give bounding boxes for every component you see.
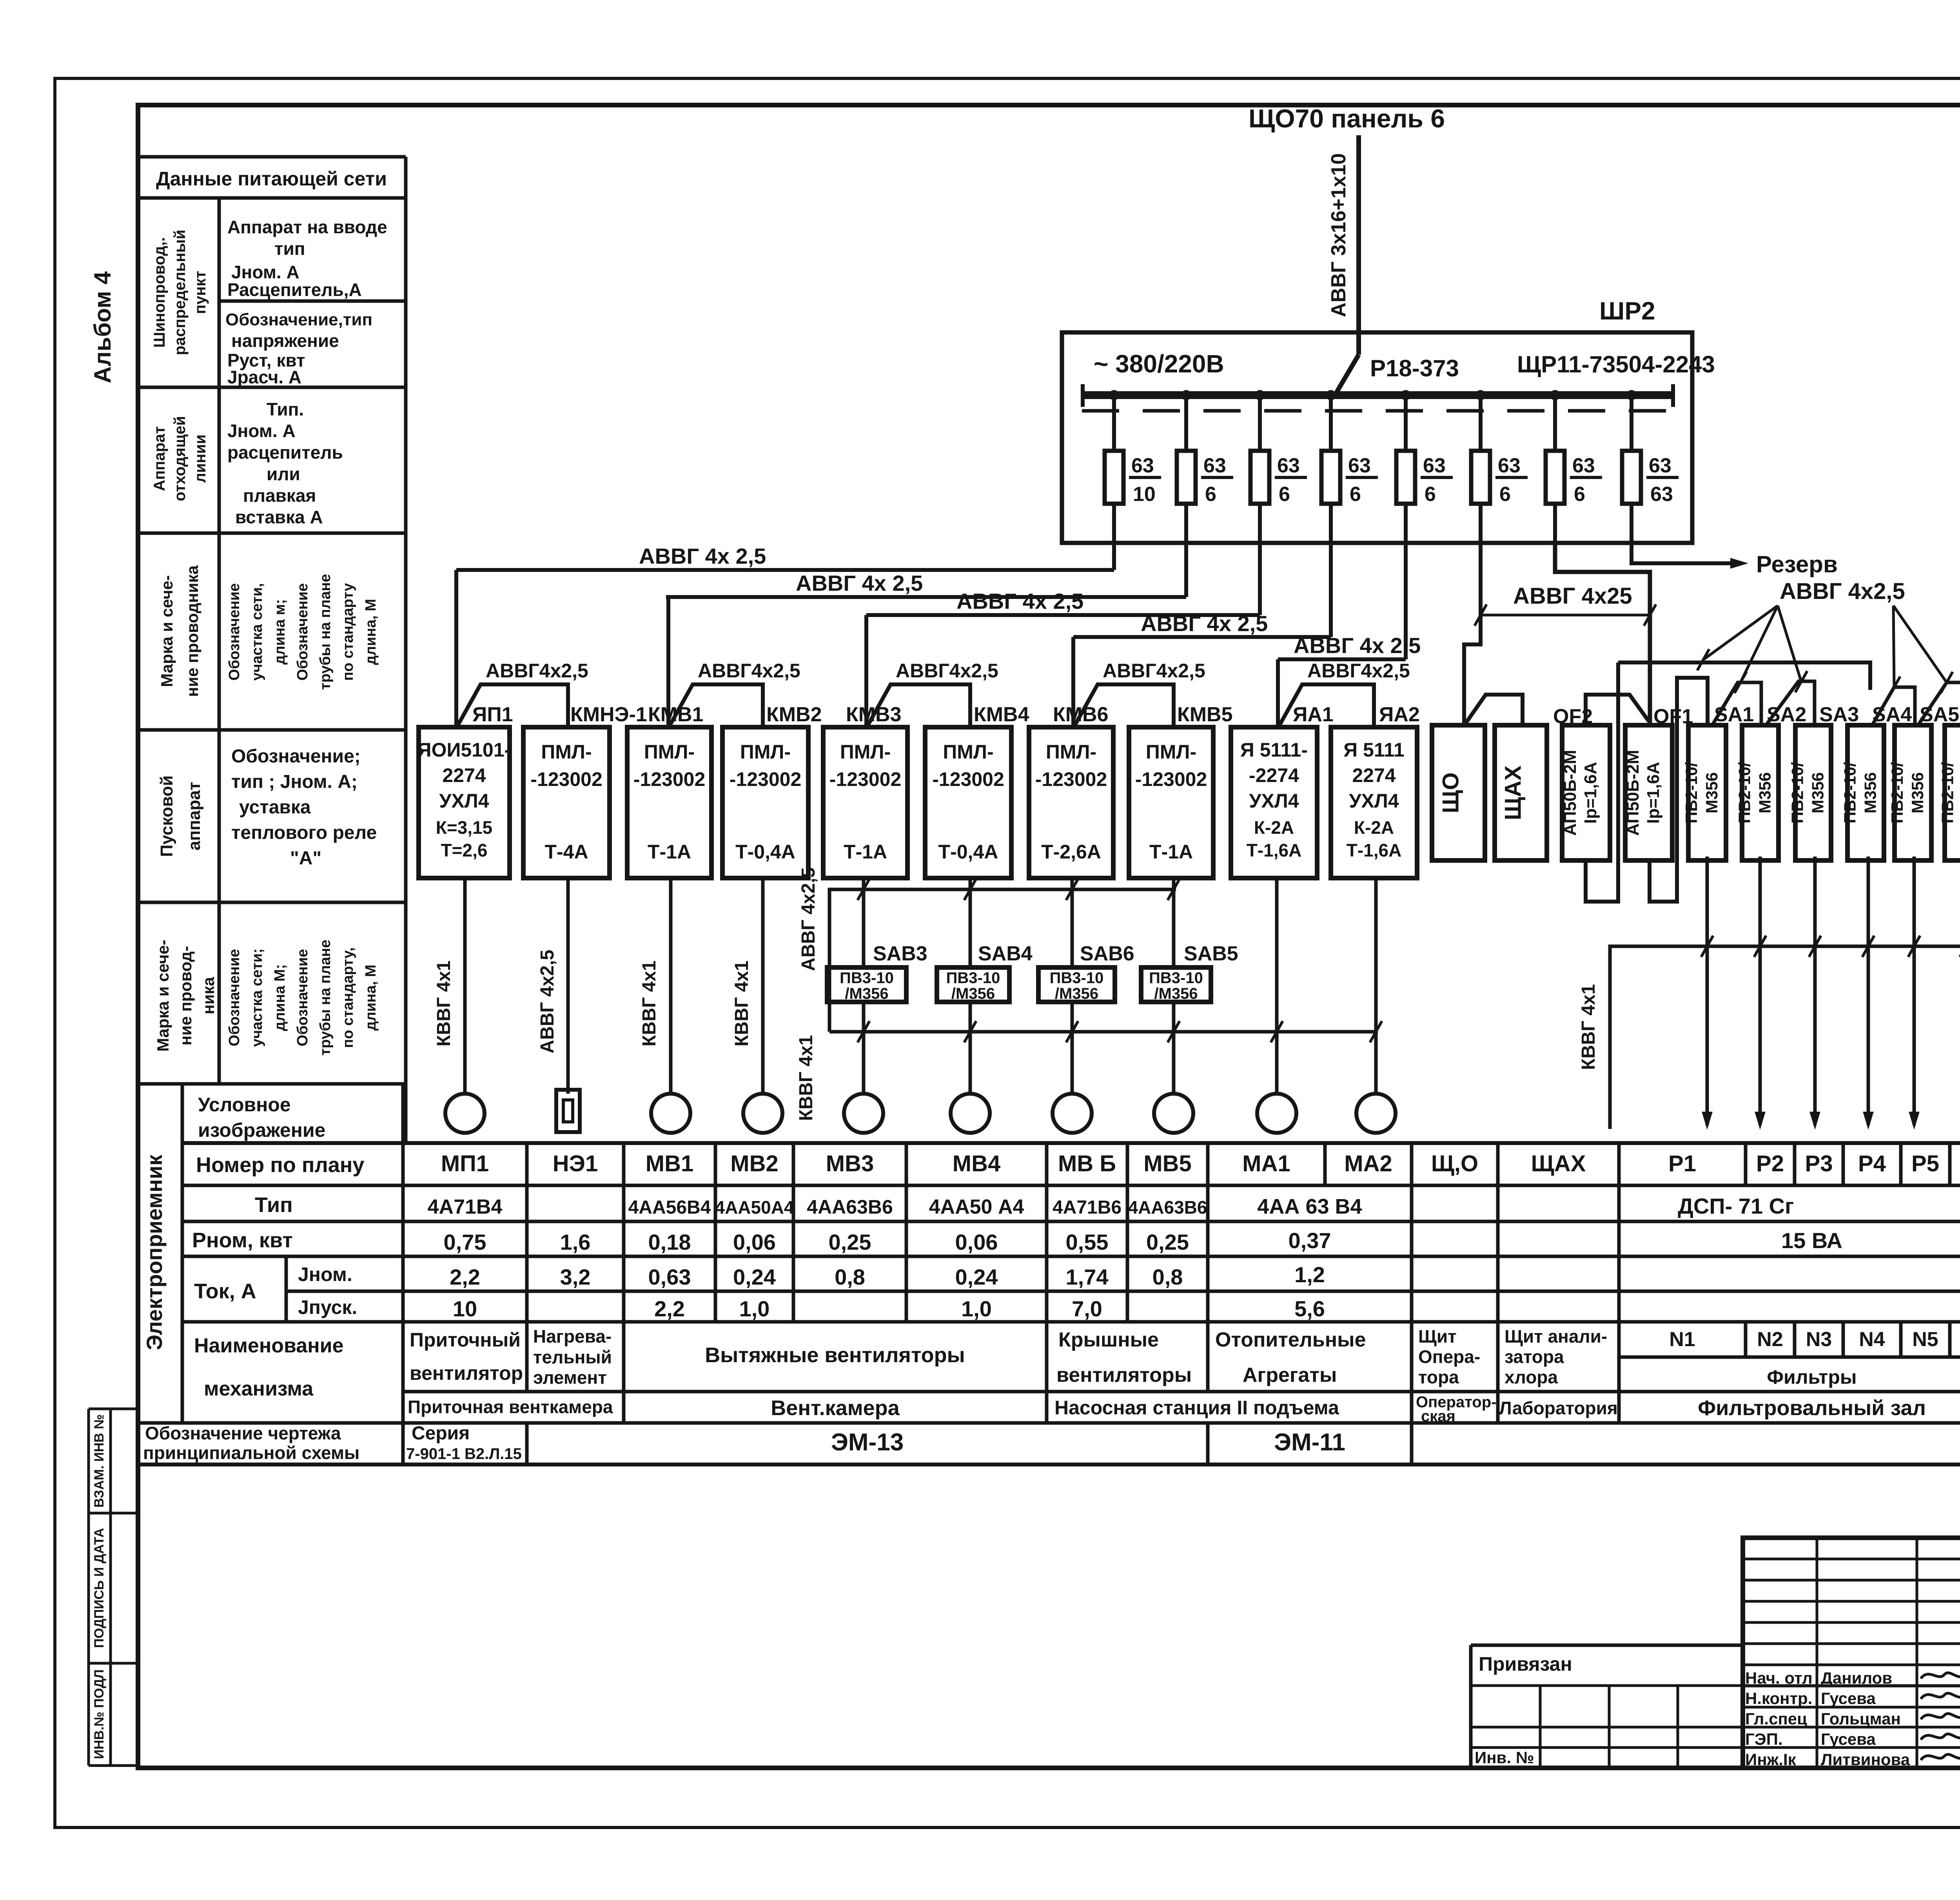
starter КМВ4 (ПМЛ-123002 Т-0,4А) (925, 727, 1011, 878)
svg-text:-123002: -123002 (633, 768, 706, 790)
svg-text:трубы на плане: трубы на плане (317, 574, 334, 690)
svg-text:6: 6 (1425, 483, 1436, 506)
svg-text:М356: М356 (1861, 772, 1880, 813)
svg-text:N2: N2 (1757, 1328, 1783, 1351)
wire group 5 roof (1279, 684, 1374, 728)
svg-text:0,24: 0,24 (733, 1265, 776, 1289)
svg-text:2274: 2274 (1352, 764, 1396, 786)
panel ЩАХ (1495, 725, 1547, 860)
svg-text:М356: М356 (1756, 772, 1774, 813)
wire drop to load 8 (1172, 878, 1176, 967)
switch SAB4 (ПВ3-10/М356) (937, 967, 1009, 1002)
svg-text:5,6: 5,6 (1294, 1296, 1325, 1321)
svg-text:0,63: 0,63 (648, 1265, 691, 1289)
svg-text:Пусковой: Пусковой (157, 775, 176, 857)
top margin band line (138, 103, 1960, 107)
switch SAB3 (ПВ3-10/М356) (827, 967, 906, 1002)
svg-text:Iр=1,6А: Iр=1,6А (1581, 762, 1600, 824)
svg-text:участка сети;: участка сети; (249, 948, 265, 1047)
svg-text:Ток, А: Ток, А (194, 1279, 256, 1303)
starter ЯА2 (Я5111-2274) (1331, 727, 1417, 878)
svg-text:/М356: /М356 (1055, 985, 1098, 1002)
svg-text:Јном. А: Јном. А (227, 421, 296, 441)
neutral dashed bus (1082, 409, 1674, 413)
svg-text:-123002: -123002 (1135, 768, 1207, 790)
svg-text:М356: М356 (1809, 772, 1827, 813)
svg-text:2,2: 2,2 (654, 1296, 685, 1321)
svg-text:Гусева: Гусева (1821, 1689, 1876, 1708)
svg-text:КМВ1: КМВ1 (648, 703, 704, 726)
svg-text:Я 5111: Я 5111 (1343, 739, 1405, 761)
wire feeder 4 run (1329, 543, 1333, 637)
svg-text:пункт: пункт (192, 271, 209, 314)
wire to filter Р5 (1913, 857, 1916, 1125)
wire SA2-SA3 roof (1766, 681, 1815, 725)
svg-text:АВВГ4х2,5: АВВГ4х2,5 (1103, 660, 1205, 682)
wire drop to load 4 (761, 878, 765, 1094)
svg-text:К=3,15: К=3,15 (436, 817, 492, 838)
svg-text:тельный: тельный (533, 1347, 612, 1367)
svg-text:по стандарту,: по стандарту, (340, 947, 356, 1048)
svg-text:КВВГ 4х1: КВВГ 4х1 (639, 960, 660, 1046)
svg-text:Марка и сече-: Марка и сече- (158, 575, 176, 687)
svg-text:Фильтры: Фильтры (1767, 1366, 1857, 1388)
heater element НЭ1 symbol (556, 1090, 580, 1132)
svg-text:0,8: 0,8 (835, 1265, 865, 1289)
svg-text:"А": "А" (290, 848, 321, 869)
svg-text:АВВГ4х2,5: АВВГ4х2,5 (698, 660, 800, 682)
motor symbol M9 (1257, 1094, 1296, 1133)
svg-text:4АА50А4: 4АА50А4 (715, 1197, 794, 1218)
wire branch bus КВВГ 4х1 (829, 1030, 1378, 1034)
starter КМВ2 (ПМЛ-123002 Т-0,4А) (722, 727, 808, 878)
wire drop to load 9 (1275, 878, 1279, 1094)
svg-text:ЩАХ: ЩАХ (1501, 765, 1526, 820)
svg-text:ЩО70 панель 6: ЩО70 панель 6 (1249, 104, 1445, 133)
wire drop to load 7 (1071, 878, 1074, 967)
svg-text:63: 63 (1572, 454, 1595, 477)
svg-text:SAB6: SAB6 (1080, 942, 1134, 965)
svg-text:Насосная станция II подъема: Насосная станция II подъема (1054, 1397, 1339, 1419)
svg-text:Обозначение чертежа: Обозначение чертежа (145, 1423, 341, 1443)
svg-text:длина М;: длина М; (272, 964, 288, 1031)
svg-text:ПМЛ-: ПМЛ- (943, 741, 993, 763)
svg-text:Приточная венткамера: Приточная венткамера (408, 1397, 613, 1417)
svg-text:-123002: -123002 (530, 768, 603, 790)
svg-text:К-2А: К-2А (1254, 817, 1294, 838)
wire group 1 drop (454, 570, 458, 728)
svg-text:Аппарат: Аппарат (151, 426, 168, 491)
svg-text:МА2: МА2 (1344, 1151, 1392, 1176)
label Привязан block (1469, 1645, 1473, 1768)
bus junction node 5 (1401, 390, 1411, 400)
svg-text:ПОДПИСЬ И ДАТА: ПОДПИСЬ И ДАТА (92, 1528, 107, 1648)
svg-text:63: 63 (1649, 454, 1671, 477)
svg-text:АВВГ 4х 2,5: АВВГ 4х 2,5 (639, 544, 766, 568)
svg-text:МВ5: МВ5 (1143, 1151, 1191, 1176)
svg-text:63: 63 (1348, 454, 1371, 477)
svg-text:АВВГ 4х2,5: АВВГ 4х2,5 (798, 867, 819, 971)
switch SA4 (ПВ2-10/М356) (1847, 725, 1884, 860)
fuse F8 63/63 (1630, 395, 1633, 543)
svg-text:-123002: -123002 (730, 768, 802, 790)
svg-text:Нач. отл: Нач. отл (1745, 1669, 1813, 1687)
svg-text:Р2: Р2 (1756, 1151, 1784, 1176)
svg-text:КМВ4: КМВ4 (974, 703, 1029, 726)
svg-text:6: 6 (1574, 483, 1585, 506)
svg-text:Я 5111-: Я 5111- (1240, 739, 1308, 761)
svg-text:Крышные: Крышные (1058, 1328, 1159, 1351)
svg-text:АВВГ 4х 2,5: АВВГ 4х 2,5 (1294, 633, 1421, 658)
svg-text:Щ,О: Щ,О (1431, 1151, 1478, 1176)
svg-text:0,18: 0,18 (648, 1230, 691, 1254)
svg-text:4АА 63 В4: 4АА 63 В4 (1257, 1195, 1362, 1218)
svg-text:АВВГ 3х16+1х10: АВВГ 3х16+1х10 (1327, 153, 1350, 317)
svg-text:Фильтровальный зал: Фильтровальный зал (1698, 1396, 1926, 1420)
svg-text:Гольцман: Гольцман (1821, 1709, 1901, 1728)
motor symbol M3 (651, 1094, 690, 1133)
bus bar of ShchR2 (1082, 391, 1674, 399)
wire QF2 output loop (1586, 662, 1618, 902)
motor symbol M6 (951, 1094, 990, 1133)
svg-text:по стандарту: по стандарту (340, 583, 356, 681)
wire drop to load 5 (862, 878, 866, 967)
svg-text:SAB5: SAB5 (1184, 942, 1238, 965)
wire group 5 drop (1276, 659, 1280, 728)
svg-text:Т-1,6А: Т-1,6А (1247, 840, 1302, 860)
dimension line АВВГ 4х25 (1481, 614, 1650, 617)
svg-text:КМВ2: КМВ2 (766, 703, 822, 726)
wire group 4 roof (1075, 684, 1174, 728)
svg-text:ПВ2-10/: ПВ2-10/ (1841, 762, 1859, 824)
svg-text:МВ3: МВ3 (826, 1151, 874, 1176)
svg-text:Условное: Условное (198, 1094, 291, 1116)
svg-text:Т-4А: Т-4А (544, 841, 588, 863)
wire drop to load 3 (669, 878, 673, 1094)
svg-text:Обозначение: Обозначение (294, 949, 311, 1046)
svg-text:ГЭП.: ГЭП. (1745, 1730, 1783, 1748)
svg-text:АВВГ 4х2,5: АВВГ 4х2,5 (1780, 579, 1905, 604)
svg-text:4АА63В6: 4АА63В6 (1128, 1197, 1207, 1218)
svg-text:4АА63В6: 4АА63В6 (807, 1196, 893, 1218)
svg-text:КВВГ 4х1: КВВГ 4х1 (796, 1035, 817, 1121)
svg-text:или: или (267, 464, 300, 484)
svg-text:принципиальной схемы: принципиальной схемы (143, 1443, 359, 1463)
svg-text:ПВ3-10: ПВ3-10 (946, 969, 1000, 987)
svg-text:хлора: хлора (1504, 1367, 1558, 1387)
svg-text:КВВГ 4х1: КВВГ 4х1 (731, 960, 752, 1046)
table horizontal rules (182, 1141, 1960, 1145)
wire QF2 roof (1586, 695, 1649, 726)
svg-text:вставка А: вставка А (235, 507, 323, 527)
motor symbol M7 (1053, 1094, 1092, 1133)
svg-text:1,74: 1,74 (1066, 1265, 1109, 1289)
svg-text:АВВГ 4х 2,5: АВВГ 4х 2,5 (956, 589, 1083, 613)
feeder-data table grid (138, 155, 406, 159)
svg-text:Т-1,6А: Т-1,6А (1347, 840, 1402, 860)
motor symbol M4 (743, 1094, 782, 1133)
wire SA4 roof (1872, 687, 1915, 725)
svg-text:Р4: Р4 (1858, 1151, 1886, 1176)
svg-text:ЩР11-73504-2243: ЩР11-73504-2243 (1517, 351, 1715, 377)
svg-text:К-2А: К-2А (1354, 817, 1394, 838)
bus junction node 6 (1475, 390, 1486, 400)
svg-text:Рном, квт: Рном, квт (192, 1229, 293, 1252)
svg-text:МП1: МП1 (441, 1151, 489, 1176)
svg-text:15 ВА: 15 ВА (1781, 1228, 1842, 1253)
svg-text:Аппарат на вводе: Аппарат на вводе (227, 217, 387, 237)
title block frame (1743, 1538, 1960, 1768)
svg-text:теплового реле: теплового реле (231, 822, 377, 843)
starter ЯП1 (ЯОИ5101-2274) (419, 727, 510, 878)
svg-text:ЭМ-13: ЭМ-13 (831, 1429, 904, 1456)
svg-text:Нагрева-: Нагрева- (533, 1326, 612, 1347)
starter КМВ5 (ПМЛ-123002 Т-1А) (1129, 727, 1213, 878)
svg-text:Обозначение: Обозначение (294, 583, 311, 681)
svg-text:Јпуск.: Јпуск. (298, 1296, 357, 1318)
wire feeder 7 to QF1/QF2 (1555, 543, 1650, 724)
breaker QF1 (АП50Б-2М) (1625, 725, 1672, 860)
wire feeder 3 run (1258, 543, 1262, 615)
svg-text:КВВГ 4х1: КВВГ 4х1 (434, 960, 454, 1046)
svg-text:ПМЛ-: ПМЛ- (840, 741, 891, 763)
wire to filter Р4 (1867, 857, 1870, 1125)
svg-text:отходящей: отходящей (171, 416, 189, 501)
motor symbol M1 (445, 1094, 485, 1133)
wire group 2 drop (666, 597, 670, 728)
wire feeder 2 run (1184, 543, 1188, 597)
svg-text:длина, М: длина, М (363, 599, 379, 665)
svg-text:АВВГ 4х2,5: АВВГ 4х2,5 (537, 950, 558, 1054)
wire to filter Р1 (1706, 857, 1709, 1125)
svg-text:уставка: уставка (239, 797, 311, 818)
svg-text:/М356: /М356 (845, 985, 888, 1002)
wire incoming from ЩО70 (1356, 135, 1361, 355)
svg-text:0,06: 0,06 (955, 1230, 998, 1254)
svg-text:Агрегаты: Агрегаты (1243, 1364, 1337, 1386)
fuse F5 63/6 (1404, 395, 1408, 543)
distribution panel ShchR2 enclosure (1062, 332, 1692, 543)
wire drop to load 6 (969, 878, 972, 967)
svg-text:4АА50 А4: 4АА50 А4 (929, 1196, 1024, 1218)
svg-text:Јном.: Јном. (298, 1263, 352, 1285)
svg-text:1,0: 1,0 (961, 1296, 992, 1321)
svg-text:/М356: /М356 (1154, 985, 1198, 1002)
signature squiggles (1921, 1673, 1960, 1679)
svg-text:длина, М: длина, М (363, 965, 379, 1031)
svg-text:ние проводника: ние проводника (183, 565, 201, 697)
starter КМВ1 (ПМЛ-123002 Т-1А) (627, 727, 711, 878)
svg-text:аппарат: аппарат (185, 782, 204, 851)
svg-text:6: 6 (1499, 483, 1511, 506)
svg-text:М356: М356 (1702, 772, 1721, 813)
svg-text:Электроприемник: Электроприемник (142, 1154, 167, 1350)
svg-text:ПВ3-10: ПВ3-10 (1149, 969, 1203, 987)
svg-text:изображение: изображение (198, 1119, 325, 1141)
svg-text:0,06: 0,06 (733, 1230, 776, 1254)
wire КВВГ 4х1 to filters (1610, 946, 1960, 1129)
table left label verticals (181, 1084, 184, 1423)
fuse F3 63/6 (1258, 395, 1262, 543)
svg-text:МВ2: МВ2 (730, 1151, 778, 1176)
svg-text:ЯОИ5101-: ЯОИ5101- (417, 739, 511, 761)
bus junction node 2 (1181, 390, 1191, 400)
svg-text:АП50Б-2М: АП50Б-2М (1623, 750, 1642, 836)
svg-text:Марка и сече-: Марка и сече- (154, 940, 172, 1051)
svg-text:ника: ника (199, 977, 218, 1014)
row Наименование механизма cells (401, 1322, 405, 1392)
svg-text:0,25: 0,25 (1146, 1230, 1189, 1254)
svg-text:Р18-373: Р18-373 (1370, 355, 1459, 381)
starter ЯА1 (Я5111-2274) (1231, 727, 1317, 878)
svg-text:НЭ1: НЭ1 (553, 1151, 598, 1176)
svg-text:ЭМ-11: ЭМ-11 (1274, 1429, 1345, 1456)
svg-text:Опера-: Опера- (1418, 1347, 1480, 1367)
svg-text:Инж.Iк: Инж.Iк (1745, 1750, 1797, 1769)
svg-text:63: 63 (1423, 454, 1446, 477)
svg-text:6: 6 (1205, 483, 1216, 506)
fuse F6 63/6 (1479, 395, 1483, 543)
switch SA1 (ПВ2-10/М356) (1688, 725, 1726, 860)
svg-text:ПМЛ-: ПМЛ- (1146, 741, 1196, 763)
table vertical rules header row (401, 1143, 405, 1185)
svg-text:ПВ2-10/: ПВ2-10/ (1888, 762, 1906, 824)
svg-text:SAB4: SAB4 (978, 942, 1033, 965)
svg-text:КМНЭ-1: КМНЭ-1 (570, 703, 647, 726)
bus junction node 4 (1326, 390, 1336, 400)
switch SAB6 (ПВ3-10/М356) (1038, 967, 1115, 1002)
svg-text:Р3: Р3 (1805, 1151, 1833, 1176)
svg-text:напряжение: напряжение (231, 330, 339, 351)
svg-text:ние провод-: ние провод- (176, 946, 195, 1045)
svg-text:6: 6 (1279, 483, 1290, 506)
svg-text:10: 10 (453, 1296, 477, 1321)
svg-text:Альбом 4: Альбом 4 (89, 271, 116, 383)
svg-text:ПМЛ-: ПМЛ- (1046, 741, 1096, 763)
svg-text:УХЛ4: УХЛ4 (1249, 790, 1299, 812)
svg-text:Обозначение: Обозначение (226, 949, 243, 1046)
svg-text:Вент.камера: Вент.камера (771, 1396, 900, 1420)
svg-text:Щит анали-: Щит анали- (1504, 1326, 1607, 1347)
svg-text:Литвинова: Литвинова (1821, 1750, 1910, 1769)
svg-text:3,2: 3,2 (560, 1265, 591, 1289)
svg-text:ПВ3-10: ПВ3-10 (840, 969, 894, 987)
svg-text:ПВ2-10/: ПВ2-10/ (1735, 762, 1754, 824)
svg-text:-123002: -123002 (829, 768, 902, 790)
svg-text:-123002: -123002 (932, 768, 1004, 790)
svg-text:МВ Б: МВ Б (1058, 1151, 1116, 1176)
svg-text:КМВ3: КМВ3 (846, 703, 902, 726)
svg-text:ПМЛ-: ПМЛ- (644, 741, 695, 763)
svg-text:плавкая: плавкая (243, 485, 316, 506)
svg-text:1,0: 1,0 (739, 1296, 770, 1321)
svg-text:Резерв: Резерв (1756, 551, 1838, 577)
wire КМВ3 branch bus АВВГ 4х2,5 (829, 889, 1176, 1032)
wire SA5-SA6 roof (1918, 682, 1960, 725)
svg-text:63: 63 (1131, 454, 1154, 477)
svg-text:ЯА1: ЯА1 (1293, 703, 1334, 726)
svg-text:Наименование: Наименование (194, 1334, 344, 1357)
svg-text:Номер по плану: Номер по плану (196, 1153, 364, 1177)
motor symbol M10 (1356, 1094, 1396, 1133)
wire group 3 drop (864, 615, 868, 728)
svg-text:МВ1: МВ1 (646, 1151, 693, 1176)
wire to filter Р2 (1759, 857, 1762, 1125)
svg-text:Вытяжные вентиляторы: Вытяжные вентиляторы (705, 1343, 965, 1367)
svg-text:тип: тип (274, 238, 305, 259)
svg-text:Привязан: Привязан (1479, 1653, 1572, 1675)
svg-text:АВВГ 4х 2,5: АВВГ 4х 2,5 (1141, 611, 1268, 636)
bus junction node 7 (1550, 390, 1560, 400)
svg-text:ПВ2-10/: ПВ2-10/ (1788, 762, 1807, 824)
wire drop to load 2 (566, 878, 570, 1094)
svg-text:N3: N3 (1806, 1328, 1832, 1351)
svg-text:М356: М356 (1908, 772, 1927, 813)
svg-text:участка сети,: участка сети, (249, 583, 265, 681)
svg-text:Лаборатория: Лаборатория (1499, 1398, 1617, 1418)
wire drop to load 1 (463, 878, 467, 1094)
svg-text:ШР2: ШР2 (1599, 297, 1655, 325)
svg-text:Гл.спец: Гл.спец (1745, 1709, 1807, 1728)
svg-text:-123002: -123002 (1035, 768, 1107, 790)
svg-text:ПМЛ-: ПМЛ- (541, 741, 592, 763)
row обозначение чертежа cells (401, 1423, 405, 1464)
svg-text:ЯП1: ЯП1 (472, 703, 513, 726)
svg-text:4А71В6: 4А71В6 (1053, 1197, 1122, 1218)
svg-text:1,2: 1,2 (1294, 1262, 1325, 1287)
switch SA5 (ПВ2-10/М356) (1895, 725, 1931, 860)
svg-text:Т-2,6А: Т-2,6А (1041, 841, 1101, 863)
svg-text:ВЗАМ. ИНВ №: ВЗАМ. ИНВ № (92, 1414, 107, 1508)
svg-text:ПВ3-10: ПВ3-10 (1050, 969, 1104, 987)
svg-text:Отопительные: Отопительные (1215, 1328, 1366, 1351)
svg-text:затора: затора (1504, 1347, 1564, 1367)
svg-text:длина м;: длина м; (272, 599, 288, 664)
svg-text:-2274: -2274 (1249, 764, 1299, 786)
svg-text:КМВ6: КМВ6 (1053, 703, 1109, 726)
svg-text:SA3: SA3 (1819, 703, 1859, 726)
svg-text:Т=2,6: Т=2,6 (441, 840, 488, 860)
starter КМНЭ-1 (ПМЛ-123002 Т-4А) (523, 727, 610, 878)
svg-text:Расцепитель,А: Расцепитель,А (227, 279, 362, 300)
breaker QF2 (АП50Б-2М) (1562, 725, 1610, 860)
svg-text:Гусева: Гусева (1821, 1730, 1876, 1748)
title block signature grid (1743, 1558, 1960, 1561)
wire QF1 output loop (1650, 678, 1708, 902)
svg-text:1,6: 1,6 (560, 1230, 591, 1254)
svg-text:расцепитель: расцепитель (227, 442, 343, 463)
motor symbol M8 (1154, 1094, 1193, 1133)
svg-text:Тип.: Тип. (267, 399, 304, 419)
bus junction node 1 (1109, 390, 1119, 400)
svg-text:N4: N4 (1859, 1328, 1885, 1351)
wire feeder 8 to reserve (1632, 543, 1737, 563)
svg-text:УХЛ4: УХЛ4 (439, 790, 489, 812)
svg-text:МВ4: МВ4 (953, 1151, 1000, 1176)
svg-text:0,37: 0,37 (1289, 1228, 1331, 1253)
svg-text:ПВ2-10/: ПВ2-10/ (1682, 762, 1700, 824)
svg-text:0,75: 0,75 (444, 1230, 486, 1254)
svg-text:вентиляторы: вентиляторы (1056, 1364, 1192, 1386)
svg-text:ИНВ.№ ПОДЛ: ИНВ.№ ПОДЛ (92, 1670, 107, 1759)
svg-text:вентилятор: вентилятор (410, 1362, 523, 1384)
bus junction node 3 (1255, 390, 1265, 400)
svg-text:0,55: 0,55 (1066, 1230, 1109, 1254)
switch SAB5 (ПВ3-10/М356) (1141, 967, 1211, 1002)
starter КМВ3 (ПМЛ-123002 Т-1А) (823, 727, 907, 878)
svg-text:М356: М356 (1959, 772, 1960, 813)
svg-text:Приточный: Приточный (410, 1329, 521, 1351)
